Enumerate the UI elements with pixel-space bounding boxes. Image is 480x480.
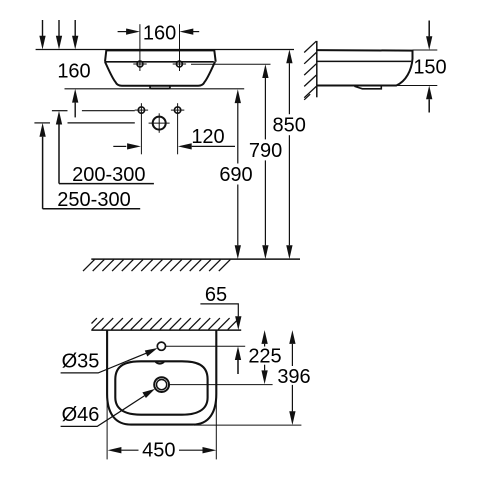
inner bowl outline plan view	[115, 361, 207, 414]
svg-text:Ø35: Ø35	[62, 351, 100, 373]
dimension 396	[289, 330, 295, 344]
wall hatching plan view	[92, 318, 240, 330]
tap hole left, front view	[137, 61, 143, 67]
450 right extension	[215, 394, 217, 459]
svg-text:690: 690	[219, 164, 252, 186]
basin front view bowl	[105, 62, 215, 86]
up arrow + riser, 250-300 dim	[39, 123, 45, 137]
extension line right tap hole	[179, 24, 181, 71]
dimension 120, right arrow	[178, 143, 192, 149]
floor line	[91, 258, 300, 260]
riser 850	[286, 50, 292, 64]
790 extension line	[191, 63, 271, 65]
up arrow, 160 dim bottom	[72, 89, 78, 103]
drain level tick line	[34, 122, 50, 124]
rim bottom line front view	[105, 61, 214, 63]
leader + arrows for 65 dim	[200, 304, 238, 317]
down arrow, 160 dim top	[74, 20, 76, 37]
drain level line	[169, 384, 272, 386]
basin front view rim	[105, 50, 216, 61]
wall line plan view	[91, 329, 241, 331]
svg-text:225: 225	[248, 346, 281, 368]
wall hatching side view	[304, 41, 316, 100]
svg-text:250-300: 250-300	[57, 189, 130, 211]
tap hole right, front view	[176, 61, 182, 67]
dimension 160 top, left arrow	[118, 31, 128, 33]
svg-text:850: 850	[273, 115, 306, 137]
tap hole level line	[166, 345, 245, 347]
dimension 225	[261, 330, 267, 344]
underline of 200-300	[59, 183, 154, 185]
svg-text:120: 120	[191, 126, 224, 148]
dimension 150 arrows	[428, 21, 430, 37]
svg-text:790: 790	[249, 140, 282, 162]
floor hatching	[83, 260, 230, 272]
leader line with arrow, diam 35	[61, 353, 147, 373]
drain fitting side view	[354, 86, 381, 89]
svg-text:160: 160	[57, 60, 90, 82]
690 level line (basin underside)	[65, 88, 245, 90]
svg-text:396: 396	[277, 366, 310, 388]
wall reference line (rim level)	[36, 49, 294, 51]
150 bottom extension	[396, 85, 437, 87]
overflow notch on inner rim	[156, 362, 165, 364]
svg-text:150: 150	[413, 57, 446, 79]
basin side profile	[317, 50, 413, 85]
svg-text:65: 65	[205, 284, 227, 306]
drain outlet front view	[153, 117, 166, 130]
front edge extension line	[194, 424, 301, 426]
150 top extension	[413, 49, 438, 51]
svg-text:450: 450	[142, 440, 175, 462]
riser 790	[262, 64, 268, 78]
dimension 160 top, right arrow	[192, 31, 199, 33]
svg-text:200-300: 200-300	[72, 164, 145, 186]
svg-text:160: 160	[143, 22, 176, 44]
wall line side view	[316, 41, 318, 97]
riser 690	[235, 89, 241, 103]
extension line left tap hole	[139, 24, 141, 71]
mounting hole right	[174, 107, 180, 113]
dimension 450 arrows	[108, 447, 122, 453]
basin plan view outer outline	[107, 330, 216, 425]
supply level tick line	[52, 110, 68, 112]
drain fitting front view	[150, 86, 170, 89]
up arrow + riser, 200-300 dim	[56, 111, 62, 125]
drain outer circle (diam 46)	[154, 377, 169, 392]
leader line with arrow, diam 46	[61, 396, 145, 427]
dimension 120, left arrow	[113, 145, 126, 147]
450 left extension	[106, 394, 108, 459]
underline of 250-300	[43, 208, 141, 210]
down arrow, 250-300 dim top	[42, 20, 44, 37]
rim bottom line side view	[317, 60, 411, 62]
tap hole plan view (diam 35)	[157, 342, 165, 350]
drain inner circle	[157, 380, 167, 390]
down arrow, 200-300 dim top	[58, 20, 60, 37]
svg-text:Ø46: Ø46	[62, 404, 100, 426]
mounting hole left	[138, 107, 144, 113]
